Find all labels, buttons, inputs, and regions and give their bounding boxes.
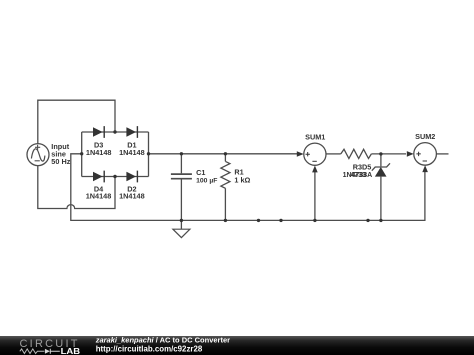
- svg-text:http://circuitlab.com/c92zr28: http://circuitlab.com/c92zr28: [96, 344, 203, 353]
- svg-text:1 kΩ: 1 kΩ: [234, 176, 250, 185]
- svg-text:1N4148: 1N4148: [119, 148, 145, 157]
- svg-text:R3: R3: [353, 162, 362, 171]
- svg-text:SUM2: SUM2: [415, 132, 435, 141]
- svg-text:1N4148: 1N4148: [86, 192, 112, 201]
- svg-text:100 µF: 100 µF: [196, 178, 217, 185]
- svg-text:C1: C1: [196, 168, 205, 177]
- svg-text:4733: 4733: [350, 172, 366, 179]
- svg-text:SUM1: SUM1: [305, 132, 325, 141]
- svg-text:1N4148: 1N4148: [119, 192, 145, 201]
- svg-text:LAB: LAB: [61, 346, 81, 355]
- svg-text:1N4148: 1N4148: [86, 148, 112, 157]
- svg-text:zaraki_kenpachi / AC to DC Con: zaraki_kenpachi / AC to DC Converter: [95, 335, 230, 344]
- svg-text:50 Hz: 50 Hz: [51, 157, 70, 166]
- svg-text:D5: D5: [362, 162, 371, 171]
